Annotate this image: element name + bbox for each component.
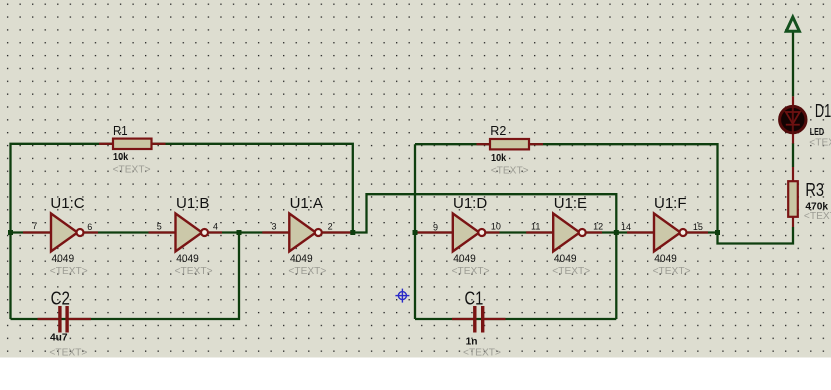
- svg-text:R1: R1: [113, 123, 128, 138]
- svg-text:<TEXT>: <TEXT>: [175, 266, 213, 277]
- wire: R3 top to LED bottom: [792, 143, 794, 167]
- wire: left rail vertical + top horizontal to R1 net + down to node J3: [11, 144, 353, 319]
- svg-text:C1: C1: [465, 288, 484, 308]
- pin 3 of U1:A: [262, 231, 289, 233]
- svg-text:4049: 4049: [654, 253, 677, 265]
- node J4 (junction pin 9 tap): [413, 230, 418, 235]
- svg-text:U1:E: U1:E: [554, 195, 587, 212]
- op-amp U1:F (inverter gate): [621, 195, 703, 277]
- svg-text:4049: 4049: [554, 253, 577, 265]
- svg-text:U1:A: U1:A: [290, 195, 323, 212]
- capacitor C1: [463, 288, 501, 358]
- svg-text:<TEXT>: <TEXT>: [288, 266, 326, 277]
- svg-text:4: 4: [213, 222, 218, 232]
- pin 14 of U1:F: [627, 231, 654, 233]
- svg-text:5: 5: [157, 222, 162, 232]
- svg-text:<TEXT>: <TEXT>: [653, 266, 691, 277]
- resistor R2: [490, 123, 529, 176]
- svg-text:11: 11: [531, 222, 540, 232]
- svg-text:<TEXT>: <TEXT>: [552, 266, 590, 277]
- svg-text:<TEXT>: <TEXT>: [50, 266, 88, 277]
- svg-text:U1:B: U1:B: [176, 195, 209, 212]
- op-amp U1:C (inverter gate): [32, 195, 92, 277]
- pin: R1 left lead: [99, 143, 113, 145]
- op-amp U1:D (inverter gate): [433, 195, 501, 277]
- svg-text:7: 7: [32, 221, 37, 231]
- diode D1 (LED): [780, 101, 831, 148]
- wire: node J4 to U1:D input: [415, 231, 453, 233]
- svg-text:D1: D1: [815, 101, 831, 121]
- pin: C1 left lead: [452, 318, 473, 320]
- op-amp U1:E (inverter gate): [531, 195, 603, 277]
- wire: R2/C1 left vertical through node J4: [414, 144, 416, 319]
- wire: U1:E output to U1:F input through node J5: [585, 231, 654, 233]
- pin: C2 right lead: [69, 318, 91, 320]
- svg-text:R2: R2: [490, 123, 506, 138]
- svg-text:<TEXT>: <TEXT>: [491, 165, 529, 176]
- svg-text:10: 10: [491, 222, 501, 232]
- wire: U1:F output to node J6: [686, 231, 717, 233]
- op-amp U1:B (inverter gate): [157, 195, 218, 277]
- pin: R2 left lead: [477, 143, 491, 145]
- resistor R1: [113, 123, 152, 176]
- wire: C2 bottom horizontal and right vertical up to node J2: [11, 233, 240, 320]
- wire: U1:A output to node J3: [322, 231, 353, 233]
- node J6 (junction U1:F out / R2 / R3): [715, 230, 720, 235]
- pin: R1 right lead: [152, 143, 166, 145]
- pin 7 of U1:C: [23, 231, 51, 233]
- pin 2 of U1:A: [322, 231, 352, 233]
- op-amp U1:A (inverter gate): [272, 195, 333, 277]
- svg-text:3: 3: [272, 222, 277, 232]
- svg-text:<TEXT>: <TEXT>: [463, 348, 501, 359]
- svg-text:4049: 4049: [290, 253, 313, 265]
- svg-text:4049: 4049: [176, 253, 199, 265]
- svg-text:LED: LED: [810, 127, 824, 138]
- pin 4 of U1:B: [208, 231, 222, 233]
- svg-text:U1:F: U1:F: [654, 195, 687, 212]
- svg-text:<TEXT>: <TEXT>: [49, 348, 87, 359]
- svg-text:4049: 4049: [52, 253, 75, 265]
- origin marker (blue cross): [395, 289, 409, 303]
- pin: C1 right lead: [485, 318, 506, 320]
- power symbol (VCC arrow) top right: [786, 17, 799, 31]
- svg-text:2: 2: [328, 222, 333, 232]
- svg-text:1n: 1n: [466, 336, 478, 347]
- wire: link from node J3 up over to node J5 and down to C1 line: [353, 194, 617, 319]
- pin 6 of U1:C: [84, 231, 99, 233]
- pin 12 of U1:E: [586, 231, 602, 233]
- pin 11 of U1:E: [526, 231, 553, 233]
- wire: C1 bottom horizontal: [415, 318, 616, 320]
- wire: U1:C output to U1:B input: [84, 231, 176, 233]
- svg-text:R3: R3: [805, 180, 824, 200]
- wire: node J1 to U1:C input: [11, 231, 52, 233]
- svg-text:U1:D: U1:D: [453, 195, 487, 212]
- wire: U1:D output to U1:E input: [485, 231, 554, 233]
- pin: LED bottom lead: [792, 131, 794, 144]
- node J1 (junction left rail / pin 7): [8, 230, 13, 235]
- svg-text:6: 6: [87, 222, 92, 232]
- wire: U1:B output to U1:A input through node J2: [208, 231, 289, 233]
- pin: R3 top lead: [792, 167, 794, 182]
- pin: LED top lead: [792, 96, 794, 108]
- svg-text:4049: 4049: [453, 253, 476, 265]
- node J3 (junction U1:A out / R1): [350, 230, 355, 235]
- pin 15 of U1:F: [687, 231, 709, 233]
- svg-text:4u7: 4u7: [50, 333, 68, 344]
- node J5 (junction U1:E out / U1:F in / link): [614, 230, 619, 235]
- node J2 (junction U1:B out / U1:A in / C2): [237, 230, 242, 235]
- svg-text:9: 9: [433, 223, 438, 233]
- svg-text:U1:C: U1:C: [50, 195, 84, 212]
- svg-text:<TEXT>: <TEXT>: [452, 266, 490, 277]
- pin 10 of U1:D: [485, 231, 499, 233]
- wire: R2 top horizontal and down to node J6: [415, 144, 718, 232]
- svg-text:12: 12: [593, 222, 603, 232]
- capacitor C2: [49, 288, 87, 358]
- wire: node J6 down and right to R3 bottom: [718, 227, 794, 244]
- pin 9 of U1:D: [417, 231, 453, 233]
- pin 5 of U1:B: [149, 231, 176, 233]
- wire: LED top to power symbol: [792, 31, 794, 97]
- svg-text:14: 14: [621, 222, 631, 232]
- pin: R3 bottom lead: [792, 217, 794, 228]
- svg-text:C2: C2: [51, 288, 70, 308]
- svg-text:15: 15: [693, 222, 703, 232]
- pin: C2 left lead: [38, 318, 59, 320]
- svg-text:<TEXT>: <TEXT>: [809, 138, 831, 149]
- svg-text:<TEXT>: <TEXT>: [804, 211, 831, 222]
- resistor R3 (vertical): [788, 180, 831, 222]
- svg-text:10k: 10k: [491, 153, 506, 164]
- svg-text:<TEXT>: <TEXT>: [113, 165, 151, 176]
- pin: R2 right lead: [529, 143, 543, 145]
- svg-text:10k: 10k: [113, 152, 128, 163]
